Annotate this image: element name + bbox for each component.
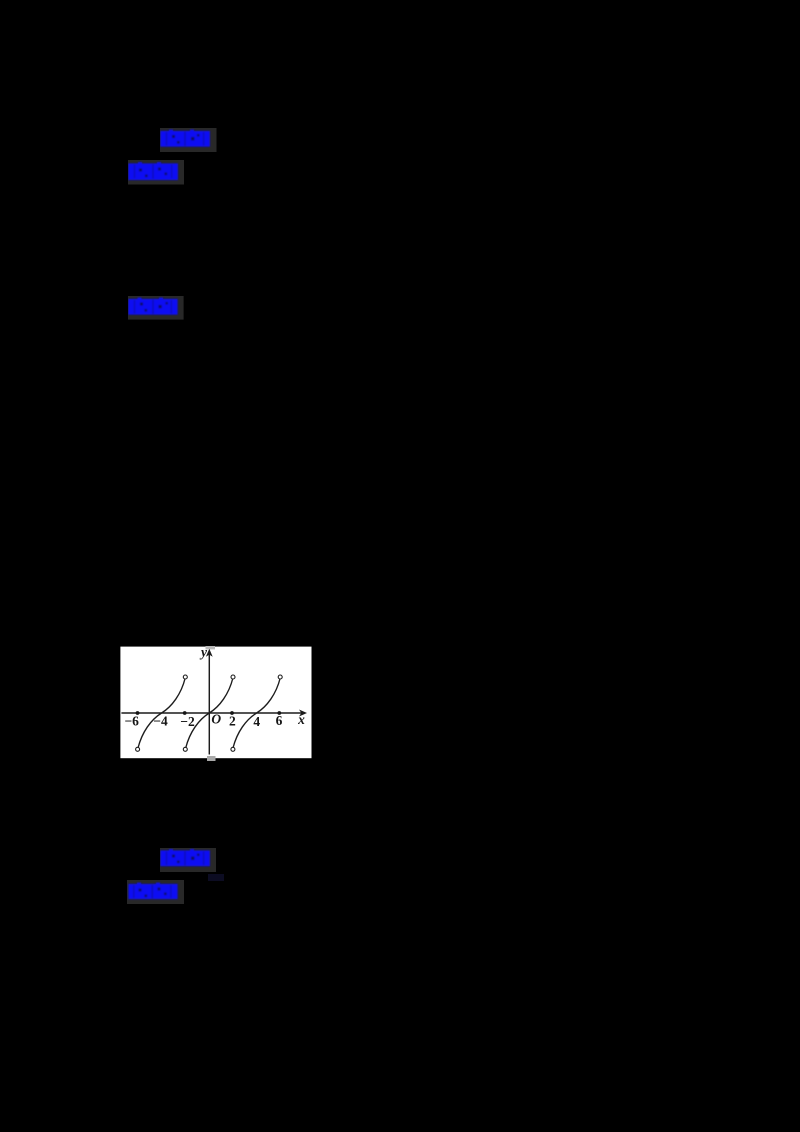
svg-text:6: 6 xyxy=(276,713,283,728)
gray smudge above y-axis arrow xyxy=(206,646,216,649)
x-axis arrowhead xyxy=(299,710,307,717)
marker 3 highlighted tag 【详解】 xyxy=(128,296,184,320)
svg-text:x: x xyxy=(297,712,305,727)
white figure background xyxy=(120,647,311,759)
open endpoint circles top xyxy=(136,675,283,751)
curve branch over (2,6) xyxy=(233,678,280,748)
marker 4 highlighted tag 【答案】 xyxy=(160,848,217,872)
marker 2 highlighted tag 【分析】 xyxy=(128,160,185,185)
y-axis arrowhead xyxy=(206,649,213,657)
axis dots at -6,-2,2,6 xyxy=(136,711,282,715)
graph figure: white inset plot of periodic function xyxy=(120,646,312,764)
svg-text:4: 4 xyxy=(253,714,260,729)
svg-text:2: 2 xyxy=(229,714,236,729)
svg-text:−4: −4 xyxy=(153,714,168,729)
svg-text:−2: −2 xyxy=(180,714,195,729)
svg-text:y: y xyxy=(199,646,208,660)
svg-text:−6: −6 xyxy=(124,714,139,729)
faint artifact dots below marker 4 xyxy=(208,874,224,881)
curve branch over (-2,2) xyxy=(186,678,233,748)
svg-text:O: O xyxy=(211,712,221,727)
marker 5 highlighted tag 【分析】 xyxy=(127,880,185,904)
y-axis xyxy=(208,652,210,755)
open endpoint circles bottom xyxy=(136,747,140,751)
marker 1 highlighted tag 【答案】 xyxy=(160,128,217,152)
curve branch over (-6,-2) xyxy=(138,678,185,748)
gray smudge below figure at y-axis xyxy=(207,756,216,761)
axis number labels xyxy=(124,645,305,730)
x-axis xyxy=(121,712,302,714)
